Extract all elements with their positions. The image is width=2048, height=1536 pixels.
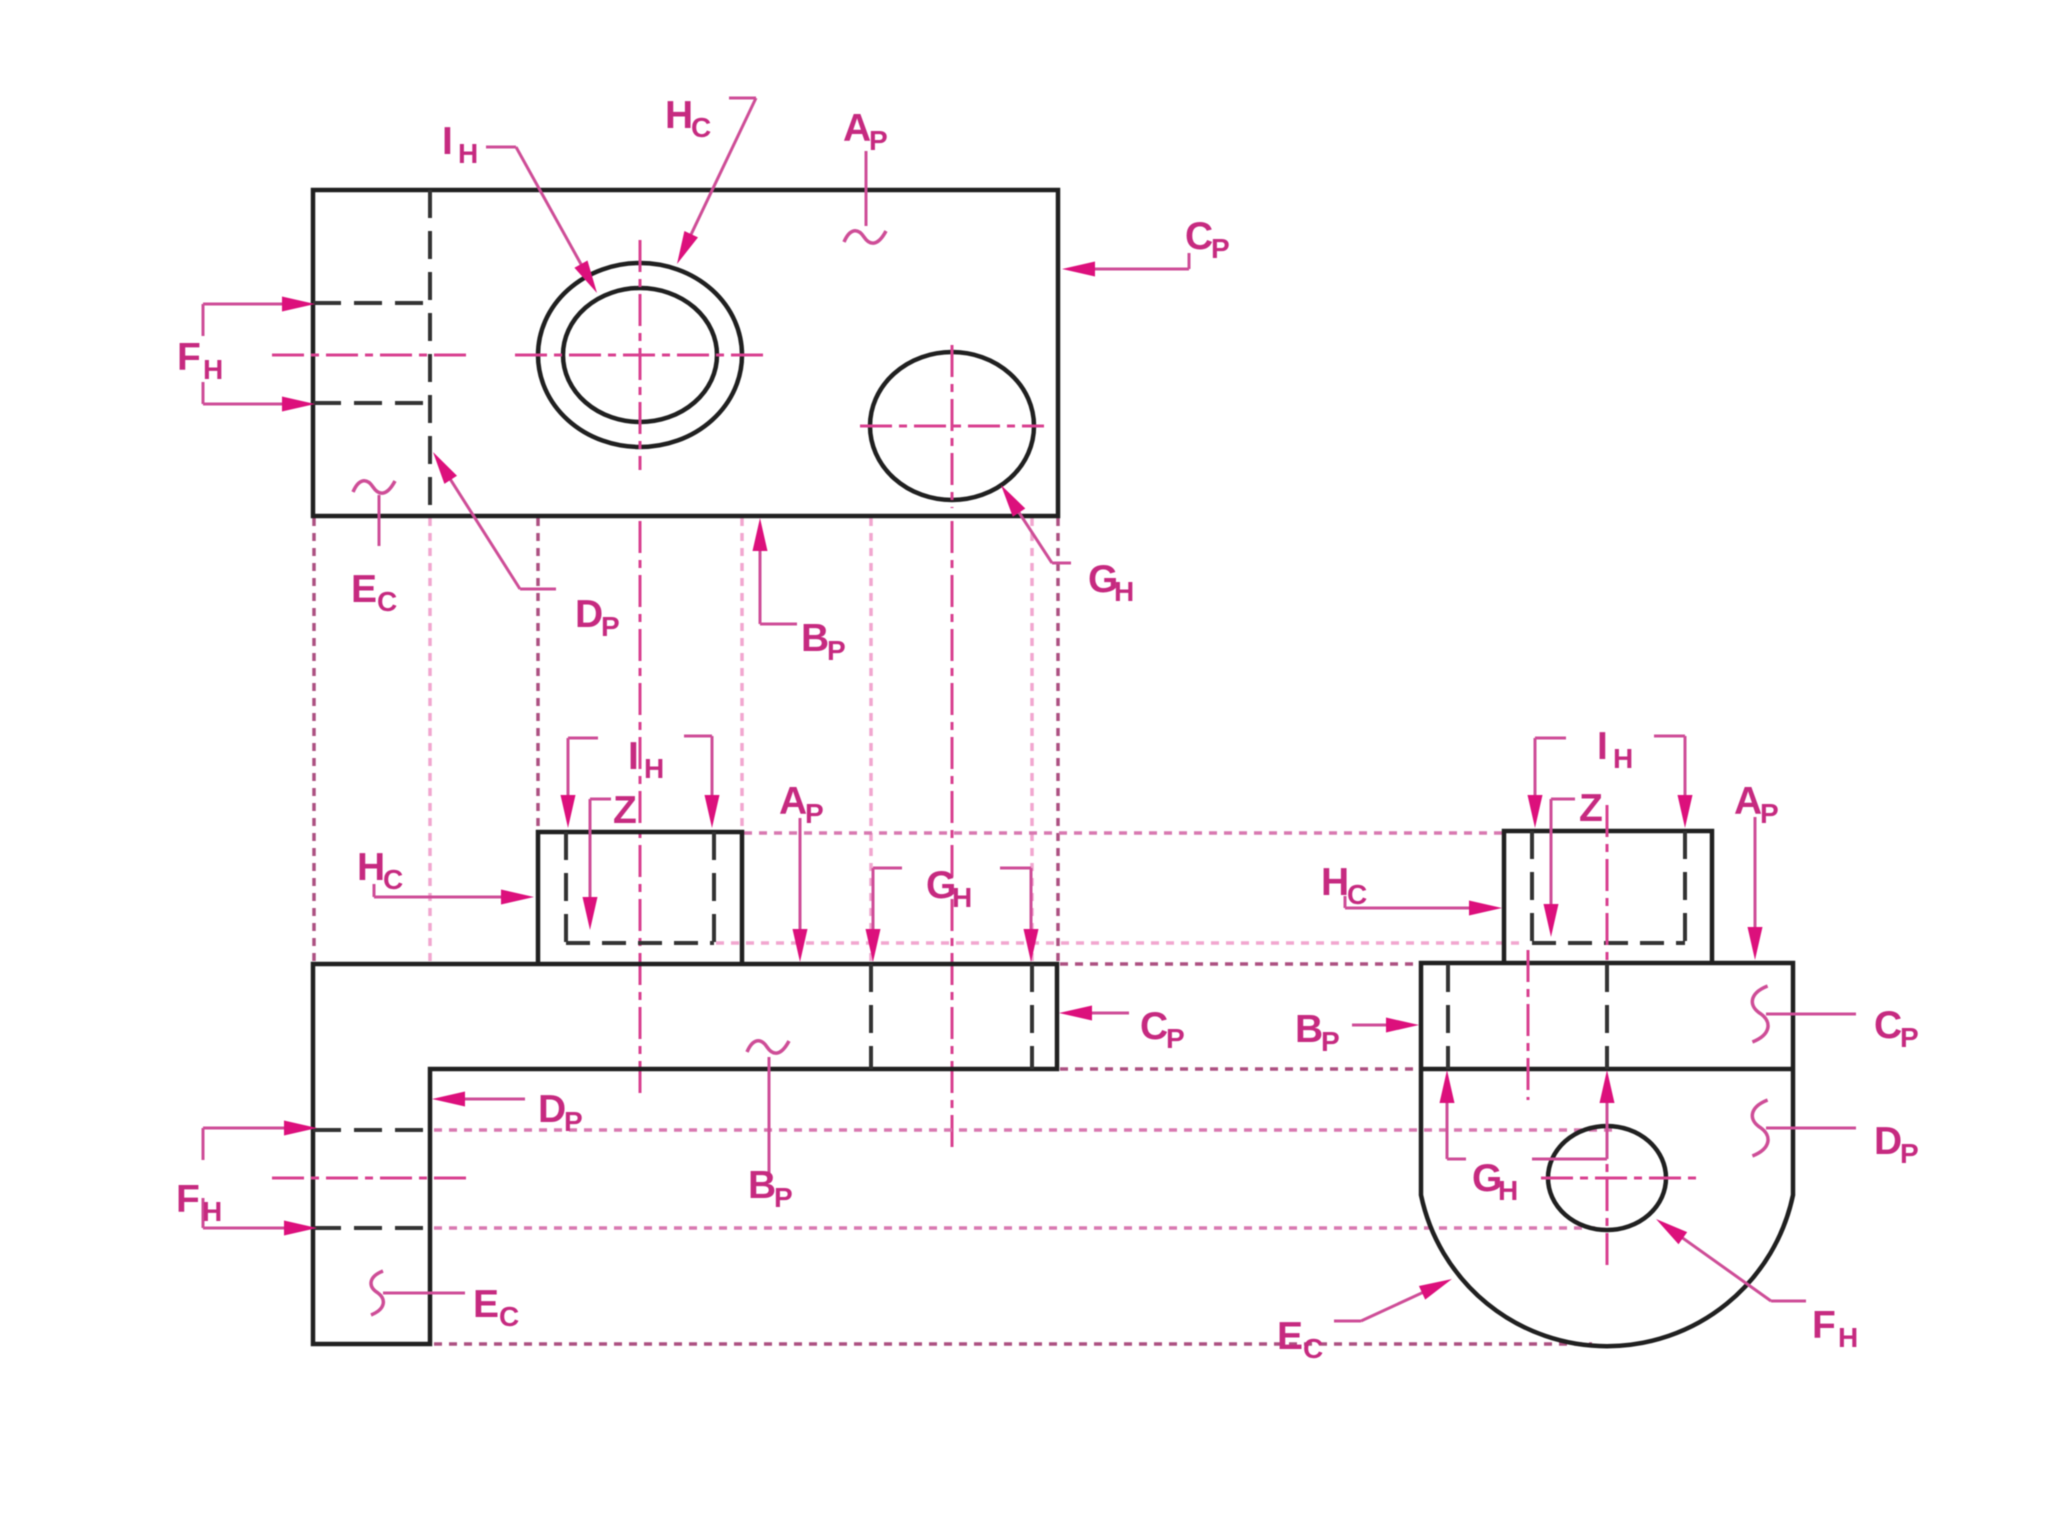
svg-text:H: H (1114, 576, 1134, 607)
svg-text:E: E (351, 568, 377, 611)
front view blind hole left hidden edge (564, 832, 568, 943)
svg-text:F: F (1812, 1304, 1836, 1347)
label C_P with squiggle on right face (side view) (1752, 986, 1918, 1053)
label B_P with arrow to bottom edge (top view) (753, 518, 846, 666)
label Z with arrow to blind hole bottom (side view) (1544, 787, 1603, 937)
projection line bar bottom edge to side view (1060, 1067, 1419, 1071)
side view boss (cylinder) (1504, 831, 1712, 963)
projection line base bottom to side view (434, 1342, 1592, 1346)
label C_P with arrow to right face (top view) (1062, 215, 1230, 277)
svg-text:B: B (1295, 1008, 1323, 1051)
svg-text:E: E (473, 1283, 499, 1326)
side view blind hole right hidden edge (1683, 831, 1687, 943)
label I_H with leader to inner circle (top view) (442, 120, 597, 293)
svg-text:C: C (1140, 1005, 1168, 1048)
svg-text:A: A (1734, 780, 1762, 823)
side view hole F_H vertical centerline (1606, 1125, 1609, 1266)
svg-text:F: F (177, 336, 201, 379)
svg-text:P: P (805, 798, 824, 829)
svg-text:P: P (1166, 1023, 1185, 1054)
svg-text:H: H (357, 846, 385, 889)
projection line hidden hole bottom to side view (434, 1226, 1595, 1230)
label A_P with arrow to top surface (side view) (1734, 780, 1779, 960)
label A_P with arrow to bar top surface (front view) (779, 780, 824, 962)
svg-text:P: P (1211, 233, 1230, 264)
projection line boss top to side view (744, 831, 1502, 835)
svg-text:B: B (801, 617, 829, 660)
label G_H with leader to small hole (top view) (1001, 485, 1134, 607)
label H_C with leader to outer circle (top view) (665, 94, 756, 264)
svg-text:I: I (1597, 725, 1608, 768)
svg-text:H: H (458, 138, 478, 169)
label Z with arrow to blind hole bottom (front view) (583, 789, 637, 930)
top view outline (313, 190, 1058, 516)
projection line counterbore right edge to boss (740, 518, 744, 830)
front view hidden hole F_H top edge (313, 1128, 432, 1132)
svg-text:P: P (869, 125, 888, 156)
side view small hole centerline (1527, 950, 1530, 1100)
label G_H with bracket arrows to hole width (side view) (1440, 1070, 1615, 1206)
svg-text:C: C (691, 112, 711, 143)
label I_H with bracket arrows (front view) (561, 735, 720, 828)
svg-text:H: H (952, 882, 972, 913)
svg-text:P: P (601, 611, 620, 642)
top view small hole vertical centerline (951, 345, 954, 508)
projection centerline counterbore axis (639, 521, 642, 1097)
projection line small hole right edge (1030, 518, 1034, 962)
svg-text:P: P (774, 1182, 793, 1213)
label F_H with leader to hole (side view) (1656, 1219, 1858, 1353)
svg-text:A: A (779, 780, 807, 823)
svg-text:A: A (843, 107, 871, 150)
projection line top-view left edge to front view (312, 518, 316, 962)
side view band edge (bar bottom) (1421, 1067, 1793, 1072)
svg-text:P: P (1900, 1022, 1919, 1053)
label B_P with squiggle on bottom surface (front view) (747, 1041, 793, 1213)
top view counterbore horizontal centerline (515, 354, 765, 357)
svg-text:P: P (1900, 1138, 1919, 1169)
svg-text:H: H (1498, 1175, 1518, 1206)
projection line small hole left edge (869, 518, 873, 962)
projection line blind hole bottom to side view (716, 941, 1520, 945)
svg-text:H: H (1321, 861, 1349, 904)
front view hidden hole F_H bottom edge (313, 1226, 432, 1230)
label B_P with arrow to left face (side view) (1295, 1008, 1419, 1057)
svg-text:I: I (628, 735, 639, 778)
svg-text:H: H (203, 354, 223, 385)
svg-text:C: C (383, 864, 403, 895)
side view main outline with rounded bottom E_C (1421, 963, 1793, 1346)
svg-text:C: C (1347, 879, 1367, 910)
label A_P with squiggle on top surface (top view) (843, 107, 888, 243)
side view blind hole left hidden edge (1530, 831, 1534, 943)
label H_C with arrow to boss (side view) (1321, 861, 1502, 916)
side view blind hole bottom hidden edge (1532, 941, 1685, 945)
svg-text:H: H (644, 753, 664, 784)
top view small hole horizontal centerline (860, 425, 1044, 428)
svg-text:H: H (1613, 743, 1633, 774)
label D_P with arrow to hidden edge (top view) (433, 452, 620, 642)
side view boss centerline (1606, 805, 1609, 963)
svg-text:H: H (202, 1196, 222, 1227)
top view counterbore vertical centerline (639, 240, 642, 470)
svg-text:Z: Z (1579, 787, 1603, 830)
svg-text:P: P (564, 1106, 583, 1137)
top view counterbore inner circle I_H (563, 288, 717, 422)
front view blind hole bottom hidden edge Z (566, 941, 714, 945)
label H_C with arrow to boss (front view) (357, 846, 534, 905)
svg-text:F: F (176, 1178, 200, 1221)
svg-text:I: I (442, 120, 453, 163)
svg-text:P: P (1321, 1026, 1340, 1057)
label C_P with arrow to right face (front view) (1059, 1005, 1185, 1054)
label F_H with bracket arrows to hidden hole (top view) (177, 297, 315, 412)
side view hole F_H horizontal centerline (1541, 1177, 1700, 1180)
top view hidden hole F_H lower edge (313, 401, 430, 405)
svg-text:C: C (1185, 215, 1213, 258)
projection line top-view right edge to front view (1056, 518, 1060, 962)
projection line bar top edge to side view (1060, 962, 1419, 966)
top view centerline of hidden hole F_H (272, 354, 467, 357)
front view small hole right hidden edge (1030, 964, 1034, 1069)
projection centerline small hole axis (951, 521, 954, 1150)
top view hidden hole F_H upper edge (313, 301, 430, 305)
top view hidden edge D_P (428, 190, 432, 516)
svg-text:H: H (1838, 1322, 1858, 1353)
front view outline (313, 964, 1057, 1344)
front view blind hole right hidden edge (712, 832, 716, 943)
top view counterbore outer circle H_C (538, 263, 742, 447)
svg-text:P: P (827, 635, 846, 666)
label G_H with bracket arrows to small hole (front view) (866, 864, 1039, 962)
side view hole F_H (1548, 1126, 1666, 1230)
svg-text:P: P (1760, 798, 1779, 829)
label I_H with bracket arrows (side view) (1528, 725, 1693, 828)
svg-text:H: H (665, 94, 693, 137)
svg-text:C: C (499, 1301, 519, 1332)
svg-text:D: D (575, 593, 603, 636)
label E_C with squiggle on cylinder (front view) (371, 1271, 519, 1332)
label F_H with bracket arrows to hidden hole (front view) (176, 1121, 317, 1236)
svg-text:C: C (377, 586, 397, 617)
top view small hole G_H (870, 352, 1034, 500)
side view small hole far hidden edge (1605, 964, 1609, 1069)
svg-text:D: D (1874, 1120, 1902, 1163)
svg-text:C: C (1874, 1004, 1902, 1047)
svg-text:D: D (538, 1088, 566, 1131)
projection line counterbore left edge to boss (536, 518, 540, 830)
projection line hidden hole top to side view (434, 1128, 1615, 1132)
svg-text:Z: Z (613, 789, 637, 832)
label E_C with leader to rounded bottom (side view) (1277, 1279, 1452, 1364)
svg-text:C: C (1303, 1333, 1323, 1364)
front view small hole left hidden edge (869, 964, 873, 1069)
label D_P with arrow to step face (front view) (432, 1088, 583, 1137)
svg-text:B: B (748, 1164, 776, 1207)
label E_C with squiggle (top view) (351, 481, 397, 617)
front view boss (cylinder) (538, 832, 742, 964)
front view hole F_H centerline (272, 1177, 466, 1180)
svg-text:E: E (1277, 1315, 1303, 1358)
projection line D_P edge to front step (428, 518, 432, 962)
side view small hole near hidden edge (1446, 964, 1450, 1069)
label D_P with squiggle (side view) (1752, 1100, 1918, 1169)
